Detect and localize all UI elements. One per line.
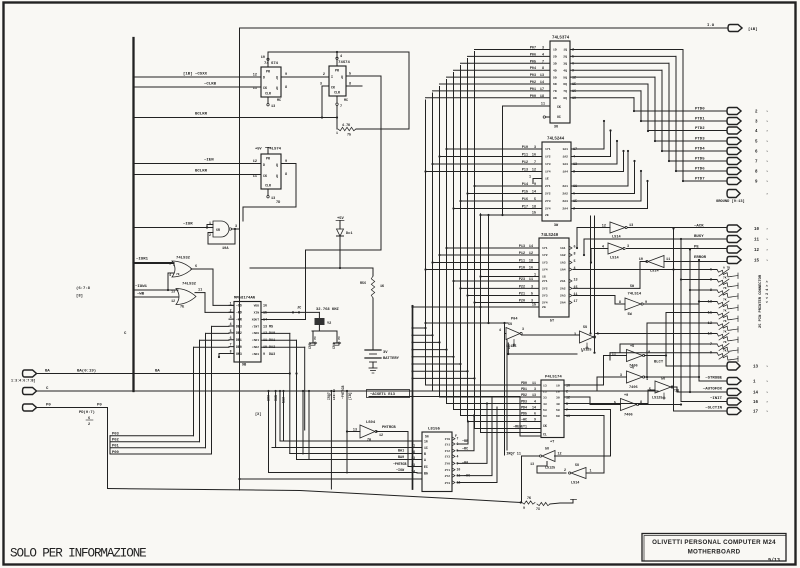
svg-text:~STROBE: ~STROBE [705,377,722,381]
svg-text:10: 10 [646,351,650,355]
svg-text:18: 18 [529,260,533,264]
svg-text:2: 2 [209,233,211,237]
svg-text:13: 13 [543,383,547,387]
svg-text:17: 17 [540,88,544,92]
svg-text:8: 8 [285,86,287,90]
svg-text:P13: P13 [522,169,528,173]
svg-text:2: 2 [323,73,325,77]
svg-text:15: 15 [574,286,578,290]
svg-text:1Y1: 1Y1 [545,147,551,151]
svg-text:P10: P10 [519,267,525,271]
svg-text:E13: E13 [282,397,286,403]
svg-text:15: 15 [532,212,536,216]
svg-text:13: 13 [753,366,759,370]
svg-text:4: 4 [542,53,544,57]
svg-text:7X: 7X [536,507,540,511]
svg-text:LS04: LS04 [366,421,376,425]
svg-text:18: 18 [532,206,536,210]
svg-text:3: 3 [230,315,232,319]
svg-text:3: 3 [620,374,622,378]
svg-text:1Y4: 1Y4 [545,170,551,174]
svg-text:11: 11 [253,175,257,179]
svg-text:ERROR: ERROR [694,256,707,260]
svg-text:[1B] ~CSXX: [1B] ~CSXX [183,72,208,77]
svg-text:17: 17 [753,411,759,415]
svg-text:16: 16 [263,305,267,309]
svg-text:4: 4 [457,454,459,458]
svg-text:74LS32: 74LS32 [176,257,191,261]
svg-text:6: 6 [574,246,576,250]
svg-text:1G: 1G [542,275,546,279]
svg-text:C95: C95 [308,343,312,349]
svg-text:1A1: 1A1 [562,147,568,151]
svg-text:18: 18 [540,95,544,99]
svg-text:BA1: BA1 [398,450,404,454]
svg-text:7: 7 [534,161,536,165]
svg-text:2E: 2E [545,213,549,217]
svg-text:7K: 7K [723,331,727,334]
svg-text:7Q: 7Q [563,89,567,93]
svg-text:5Q: 5Q [563,75,567,79]
svg-text:5U: 5U [575,464,579,468]
svg-text:P4LS174: P4LS174 [545,376,562,380]
svg-text:IRQ7 11: IRQ7 11 [506,453,521,457]
svg-text:EIN:13: EIN:13 [333,389,336,400]
svg-text:1A3: 1A3 [560,261,566,265]
svg-text:15 PF: 15 PF [314,336,317,345]
svg-text:PD5: PD5 [521,412,527,416]
svg-text:OLIVETTI PERSONAL COMPUTER M24: OLIVETTI PERSONAL COMPUTER M24 [652,539,776,546]
svg-text:P20: P20 [519,300,525,304]
svg-text:4.7K: 4.7K [342,124,351,128]
svg-text:11: 11 [612,353,616,357]
svg-text:6: 6 [230,336,232,340]
svg-text:15: 15 [532,304,536,308]
svg-text:4D: 4D [553,68,557,72]
svg-text:BA0: BA0 [398,456,404,460]
svg-text:PTD7: PTD7 [695,178,705,182]
svg-text:P23: P23 [519,278,525,282]
svg-text:12: 12 [754,249,760,253]
svg-text:LS125: LS125 [545,467,555,471]
svg-text:2G: 2G [542,305,546,309]
svg-text:12: 12 [532,169,536,173]
svg-text:~WC: ~WC [521,418,527,422]
svg-text:P01: P01 [530,88,536,92]
svg-text:P15: P15 [522,191,528,195]
svg-text:~IOR: ~IOR [274,395,278,403]
svg-text:PTD5: PTD5 [695,158,705,162]
svg-text:4: 4 [340,55,342,59]
svg-text:2Y2: 2Y2 [445,475,451,478]
svg-text:›: › [766,391,768,396]
svg-text:10A: 10A [222,247,229,251]
svg-text:8: 8 [542,67,544,71]
svg-text:[8]: [8] [76,294,83,299]
svg-text:14: 14 [753,392,759,396]
svg-text:BCLKR: BCLKR [195,113,208,117]
svg-text:DA0: DA0 [269,332,275,336]
svg-text:P02: P02 [112,439,120,443]
svg-text:5: 5 [534,198,536,202]
svg-text:MOTHERBOARD: MOTHERBOARD [688,549,741,556]
svg-text:1Y0: 1Y0 [445,438,451,441]
svg-text:7: 7 [542,60,544,64]
svg-text:1Y1: 1Y1 [445,443,451,446]
svg-text:6R: 6R [216,228,220,232]
svg-text:P11: P11 [519,260,525,264]
svg-text:›: › [766,110,768,115]
svg-text:BCLKR: BCLKR [195,170,208,174]
svg-text:10: 10 [754,228,760,232]
svg-text:P10: P10 [522,146,528,150]
svg-text:1A3: 1A3 [562,162,568,166]
svg-text:~PHTRCB: ~PHTRCB [393,462,406,466]
svg-text:8D: 8D [553,96,557,100]
svg-text:›: › [766,248,768,253]
svg-text:›: › [766,410,768,415]
svg-text:XIN: XIN [254,312,260,315]
svg-text:›: › [766,238,768,243]
svg-text:MC: MC [277,98,281,102]
svg-text:16: 16 [529,267,533,271]
svg-text:74LS244: 74LS244 [547,138,565,142]
svg-text:6: 6 [195,265,197,269]
svg-text:9: 9 [285,73,287,77]
svg-text:P06: P06 [530,53,536,57]
svg-text:CL: CL [543,433,547,437]
svg-text:CK: CK [263,174,267,178]
svg-text:PHTRCB: PHTRCB [382,426,396,430]
svg-text:PD1: PD1 [521,387,527,391]
svg-text:2Y3: 2Y3 [542,294,548,298]
svg-text:I.O: I.O [707,24,715,28]
svg-text:P02: P02 [530,81,536,85]
svg-text:4: 4 [499,328,501,332]
svg-text:~CS: ~CS [236,304,242,308]
svg-text:10: 10 [556,383,560,387]
svg-text:1: 1 [529,176,531,180]
svg-text:3: 3 [522,327,524,331]
svg-text:8Q: 8Q [563,96,567,100]
svg-text:63: 63 [543,414,547,418]
svg-text:P22: P22 [519,285,525,289]
svg-text:11: 11 [253,87,257,91]
svg-text:16: 16 [424,439,428,443]
svg-text:13: 13 [532,393,536,397]
svg-text:50: 50 [556,408,560,412]
svg-text:1Y2: 1Y2 [445,450,451,453]
svg-text:2A4: 2A4 [560,301,566,305]
svg-text:P13: P13 [519,245,525,249]
svg-text:13: 13 [530,462,534,466]
svg-text:BG: BG [424,471,428,475]
svg-text:5: 5 [574,260,576,264]
svg-text:2Y4: 2Y4 [545,207,551,211]
svg-text:OC: OC [557,115,561,119]
svg-text:7406: 7406 [629,386,638,390]
svg-text:PD0: PD0 [521,381,527,385]
svg-text:~IOW1: ~IOW1 [135,285,148,289]
svg-text:7K: 7K [723,299,727,302]
svg-text:12: 12 [253,160,257,164]
svg-text:7D: 7D [276,201,280,205]
svg-text:P12: P12 [519,252,525,256]
svg-text:25 PIN PRINTER CONNECTOR: 25 PIN PRINTER CONNECTOR [759,274,763,328]
svg-text:2A3: 2A3 [562,199,568,203]
svg-text:SOLO PER INFORMAZIONE: SOLO PER INFORMAZIONE [10,547,146,561]
svg-text:P03: P03 [112,433,120,437]
svg-text:BA(0:19): BA(0:19) [77,369,96,374]
svg-text:P00: P00 [530,95,536,99]
svg-text:5: 5 [531,293,533,297]
svg-text:13: 13 [574,279,578,283]
svg-text:LS14: LS14 [610,257,619,261]
svg-text:CK: CK [557,105,561,109]
svg-text:1:3:4:6:7:B]: 1:3:4:6:7:B] [11,379,35,384]
svg-text:DA1: DA1 [269,339,275,343]
svg-text:2Q: 2Q [563,55,567,59]
svg-text:LS14: LS14 [650,270,659,274]
svg-text:PD3: PD3 [521,400,527,404]
svg-text:< < 2 4 > >: < < 2 4 > > [765,281,770,303]
svg-text:1Y1: 1Y1 [542,246,548,250]
svg-text:4: 4 [230,322,232,326]
svg-text:MM58174AN: MM58174AN [234,297,256,301]
svg-text:BA: BA [155,370,160,374]
svg-text:32.768 KHZ: 32.768 KHZ [316,308,340,312]
svg-text:2Y0: 2Y0 [445,463,451,466]
svg-text:16: 16 [753,401,759,405]
svg-text:PR: PR [266,157,270,161]
svg-text:L8155: L8155 [428,428,441,432]
svg-text:›: › [766,120,768,125]
svg-text:9: 9 [285,160,287,164]
svg-text:BA: BA [45,370,50,374]
svg-text:›: › [766,192,768,197]
svg-text:2A4: 2A4 [562,207,568,211]
svg-text:2Y2: 2Y2 [545,192,551,196]
svg-text:1A1: 1A1 [560,246,566,250]
svg-text:~AUTOFDX: ~AUTOFDX [703,388,723,392]
svg-text:XOUT: XOUT [252,318,259,321]
svg-text:PD(0:7): PD(0:7) [79,410,95,415]
svg-text:~IEN: ~IEN [204,159,214,163]
svg-text:B: B [424,452,426,456]
svg-text:2Y1: 2Y1 [542,279,548,283]
svg-text:10: 10 [261,56,265,60]
svg-text:P0: P0 [97,404,102,408]
svg-text:74LS240: 74LS240 [541,234,559,238]
svg-text:1C: 1C [424,446,428,450]
svg-text:74 S74: 74 S74 [264,62,279,66]
svg-text:12: 12 [379,434,383,438]
svg-text:P01: P01 [112,445,120,449]
svg-text:17: 17 [574,300,578,304]
svg-text:+0: +0 [624,394,628,398]
svg-text:P00: P00 [112,451,120,455]
svg-text:PTD3: PTD3 [695,138,705,142]
svg-text:2: 2 [564,469,566,473]
svg-text:~CLKB: ~CLKB [204,83,217,87]
svg-text:7K: 7K [723,350,727,353]
svg-text:PD2: PD2 [521,393,527,397]
svg-text:~IOR: ~IOR [183,223,193,227]
svg-text:~RB: ~RB [462,440,468,444]
svg-text:LS125: LS125 [652,397,663,401]
svg-text:7K: 7K [723,341,727,344]
svg-text:Dc1: Dc1 [346,232,352,236]
svg-text:D: D [263,76,265,80]
svg-text:+5V: +5V [255,148,262,152]
svg-text:Q: Q [276,76,278,80]
svg-text:MS: MS [269,325,273,329]
svg-text:7D: 7D [553,89,557,93]
svg-text:5U: 5U [545,448,549,452]
svg-text:BLCT: BLCT [654,361,664,365]
svg-text:5U: 5U [583,326,587,330]
svg-text:CLR: CLR [265,184,271,188]
svg-text:+U: +U [630,345,634,349]
svg-text:7E: 7E [176,273,180,276]
svg-text:PTD2: PTD2 [695,127,705,131]
svg-text:›: › [766,140,768,145]
svg-text:2A2: 2A2 [560,287,566,291]
svg-text:R56: R56 [360,282,366,286]
svg-text:5D: 5D [553,75,557,79]
svg-text:2D: 2D [553,55,557,59]
svg-text:7406: 7406 [624,414,633,418]
svg-text:40: 40 [556,402,560,406]
svg-text:5: 5 [230,329,232,333]
svg-text:9: 9 [534,183,536,187]
svg-text:5: 5 [649,388,651,392]
svg-text:9/13: 9/13 [768,558,780,564]
svg-text:›: › [766,400,768,405]
svg-text:12: 12 [529,252,533,256]
svg-text:4: 4 [646,378,648,382]
svg-text:2A1: 2A1 [560,279,566,283]
svg-text:13: 13 [263,325,267,329]
svg-text:3D: 3D [553,62,557,66]
svg-text:CK: CK [331,86,335,90]
svg-text:3: 3 [542,47,544,51]
svg-text:14: 14 [529,245,533,249]
svg-text:7K: 7K [527,496,531,500]
svg-text:10: 10 [457,468,461,472]
svg-text:PD4: PD4 [521,406,527,410]
svg-text:[1B]: [1B] [748,27,758,32]
svg-text:[X]: [X] [255,412,261,417]
svg-text:1Y2: 1Y2 [545,155,551,159]
svg-text:~IOW: ~IOW [267,395,271,403]
svg-text:PR: PR [266,70,270,74]
svg-text:33: 33 [543,395,547,399]
svg-text:12: 12 [253,74,257,78]
svg-text:DA2: DA2 [269,346,275,350]
svg-text:2Y3: 2Y3 [545,199,551,203]
svg-text:4Q: 4Q [563,68,567,72]
svg-text:7K: 7K [723,320,727,323]
svg-text:›: › [766,259,768,264]
svg-text:9: 9 [534,418,536,422]
svg-text:5U: 5U [661,378,665,382]
svg-text:2Y2: 2Y2 [542,287,548,291]
svg-text:Q: Q [276,163,278,167]
svg-text:15 PF: 15 PF [338,336,341,345]
svg-text:~WR: ~WR [236,317,242,321]
svg-text:2Y3: 2Y3 [445,482,451,485]
svg-text:7: 7 [230,343,232,347]
svg-text:13: 13 [271,197,275,201]
svg-text:CK: CK [543,424,547,428]
svg-text:1: 1 [413,444,415,448]
svg-text:53: 53 [543,408,547,412]
svg-text:DB1: DB1 [236,338,242,342]
svg-text:+U: +U [630,367,634,371]
svg-text:›: › [766,365,768,370]
svg-text:1: 1 [209,221,211,225]
svg-text:2: 2 [230,308,232,312]
svg-text:Q: Q [341,75,343,79]
svg-text:4: 4 [169,273,171,277]
svg-text:D: D [263,163,265,167]
svg-text:3: 3 [534,146,536,150]
svg-text:12: 12 [263,332,267,336]
svg-text:[IB]: [IB] [348,392,352,400]
svg-text:P07: P07 [530,47,536,51]
svg-text:CLR: CLR [334,91,340,95]
svg-text:12: 12 [171,299,175,303]
svg-text:P17: P17 [522,206,528,210]
svg-text:11: 11 [198,289,202,293]
svg-text:/AD0: /AD0 [252,331,259,335]
svg-text:~RD: ~RD [236,311,242,315]
svg-text:3Q: 3Q [563,62,567,66]
svg-text:LS14: LS14 [571,482,579,486]
svg-text:1Y4: 1Y4 [542,268,548,272]
svg-text:6: 6 [88,417,90,421]
svg-text:13: 13 [540,74,544,78]
svg-text:7K: 7K [723,277,727,280]
svg-text:75: 75 [347,134,351,138]
svg-text:PTD1: PTD1 [695,118,705,122]
svg-text:11: 11 [532,381,536,385]
svg-text:~ACSET1 E13: ~ACSET1 E13 [370,393,396,397]
svg-text:~IOW: ~IOW [396,469,405,473]
svg-text:1A4: 1A4 [562,170,568,174]
svg-text:3: 3 [531,285,533,289]
svg-text:60: 60 [556,414,560,418]
svg-text:7K: 7K [723,287,727,290]
svg-text:1A2: 1A2 [560,253,566,257]
svg-text:9: 9 [523,506,525,510]
svg-text:6Q: 6Q [563,82,567,86]
svg-text:7: 7 [340,105,342,109]
svg-text:5: 5 [614,402,616,406]
svg-text:15: 15 [754,260,760,264]
svg-text:14: 14 [532,406,536,410]
svg-text:2A2: 2A2 [562,192,568,196]
svg-text:A 7K: A 7K [723,267,730,270]
svg-text:5U: 5U [508,323,512,327]
svg-text:23: 23 [543,389,547,393]
svg-text:/AD1: /AD1 [252,338,259,342]
svg-text:›: › [766,227,768,232]
svg-text:~SLCTIN: ~SLCTIN [705,407,722,411]
svg-text:11: 11 [529,278,533,282]
svg-text:P14: P14 [522,183,528,187]
